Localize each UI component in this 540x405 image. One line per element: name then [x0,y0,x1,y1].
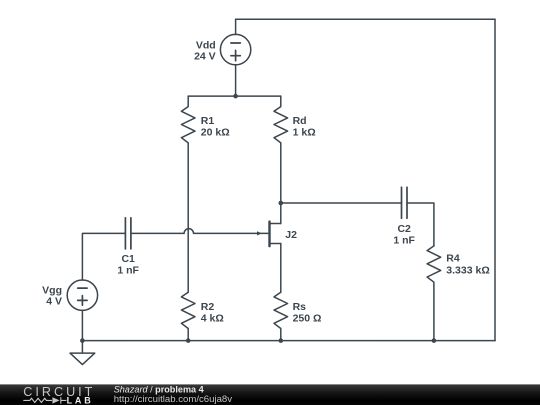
wire Vgg to C1 [82,233,125,280]
resistor Rd [274,96,288,143]
resistor R1 [181,96,195,143]
svg-text:250 Ω: 250 Ω [293,312,322,324]
svg-text:24 V: 24 V [194,51,216,63]
wire Vdd bottom lead [235,65,237,96]
svg-text:LAB: LAB [67,395,94,405]
junction dot drain node [279,201,284,206]
wire Vdd top lead [235,19,237,34]
svg-text:1 kΩ: 1 kΩ [293,127,316,139]
wire top rail [236,18,495,20]
resistor R2 [181,292,195,340]
wire drain node to C2 [281,202,402,204]
svg-text:4 V: 4 V [46,296,62,308]
svg-text:R4: R4 [446,253,460,265]
resistor Rs [274,292,288,340]
svg-text:Rd: Rd [293,115,307,127]
svg-text:3.333 kΩ: 3.333 kΩ [446,265,489,277]
wire JFET source to Rs [280,244,282,293]
logo resistor-diode icon [23,397,66,403]
junction dot Rs bottom [279,338,284,343]
wire gate from C1 with hop over divider wire [131,229,269,234]
svg-text:R2: R2 [201,301,215,313]
voltage source Vgg [67,280,97,310]
ground [70,341,95,365]
wire divider top rail [188,95,281,97]
svg-text:http://circuitlab.com/c6uja8v: http://circuitlab.com/c6uja8v [114,394,233,405]
svg-text:C2: C2 [397,223,411,235]
wire R1 bottom to R2 top [187,143,189,292]
svg-text:J2: J2 [285,229,297,241]
wire Rd bottom to drain node [280,143,282,203]
svg-text:4 kΩ: 4 kΩ [201,312,224,324]
junction dot at divider top [233,94,238,99]
junction dot at ground node [80,338,85,343]
wire C2 to R4 [407,203,434,246]
transistor J2 (N-JFET) [257,222,281,247]
svg-text:20 kΩ: 20 kΩ [201,127,230,139]
capacitor C1 [125,218,130,249]
svg-text:R1: R1 [201,115,215,127]
junction dot R4 bottom [432,338,437,343]
svg-text:1 nF: 1 nF [393,234,415,246]
svg-text:1 nF: 1 nF [117,264,139,276]
capacitor C2 [402,187,408,218]
wire bottom rail [82,340,495,342]
wire drain node to JFET drain [280,203,282,224]
wire right rail [494,19,496,340]
svg-text:Rs: Rs [293,301,307,313]
voltage source Vdd [220,34,250,64]
wire Vgg bottom lead [81,310,83,340]
resistor R4 [427,246,441,341]
junction dot R2 bottom [186,338,191,343]
svg-text:C1: C1 [121,253,135,265]
footer bar [0,384,540,405]
